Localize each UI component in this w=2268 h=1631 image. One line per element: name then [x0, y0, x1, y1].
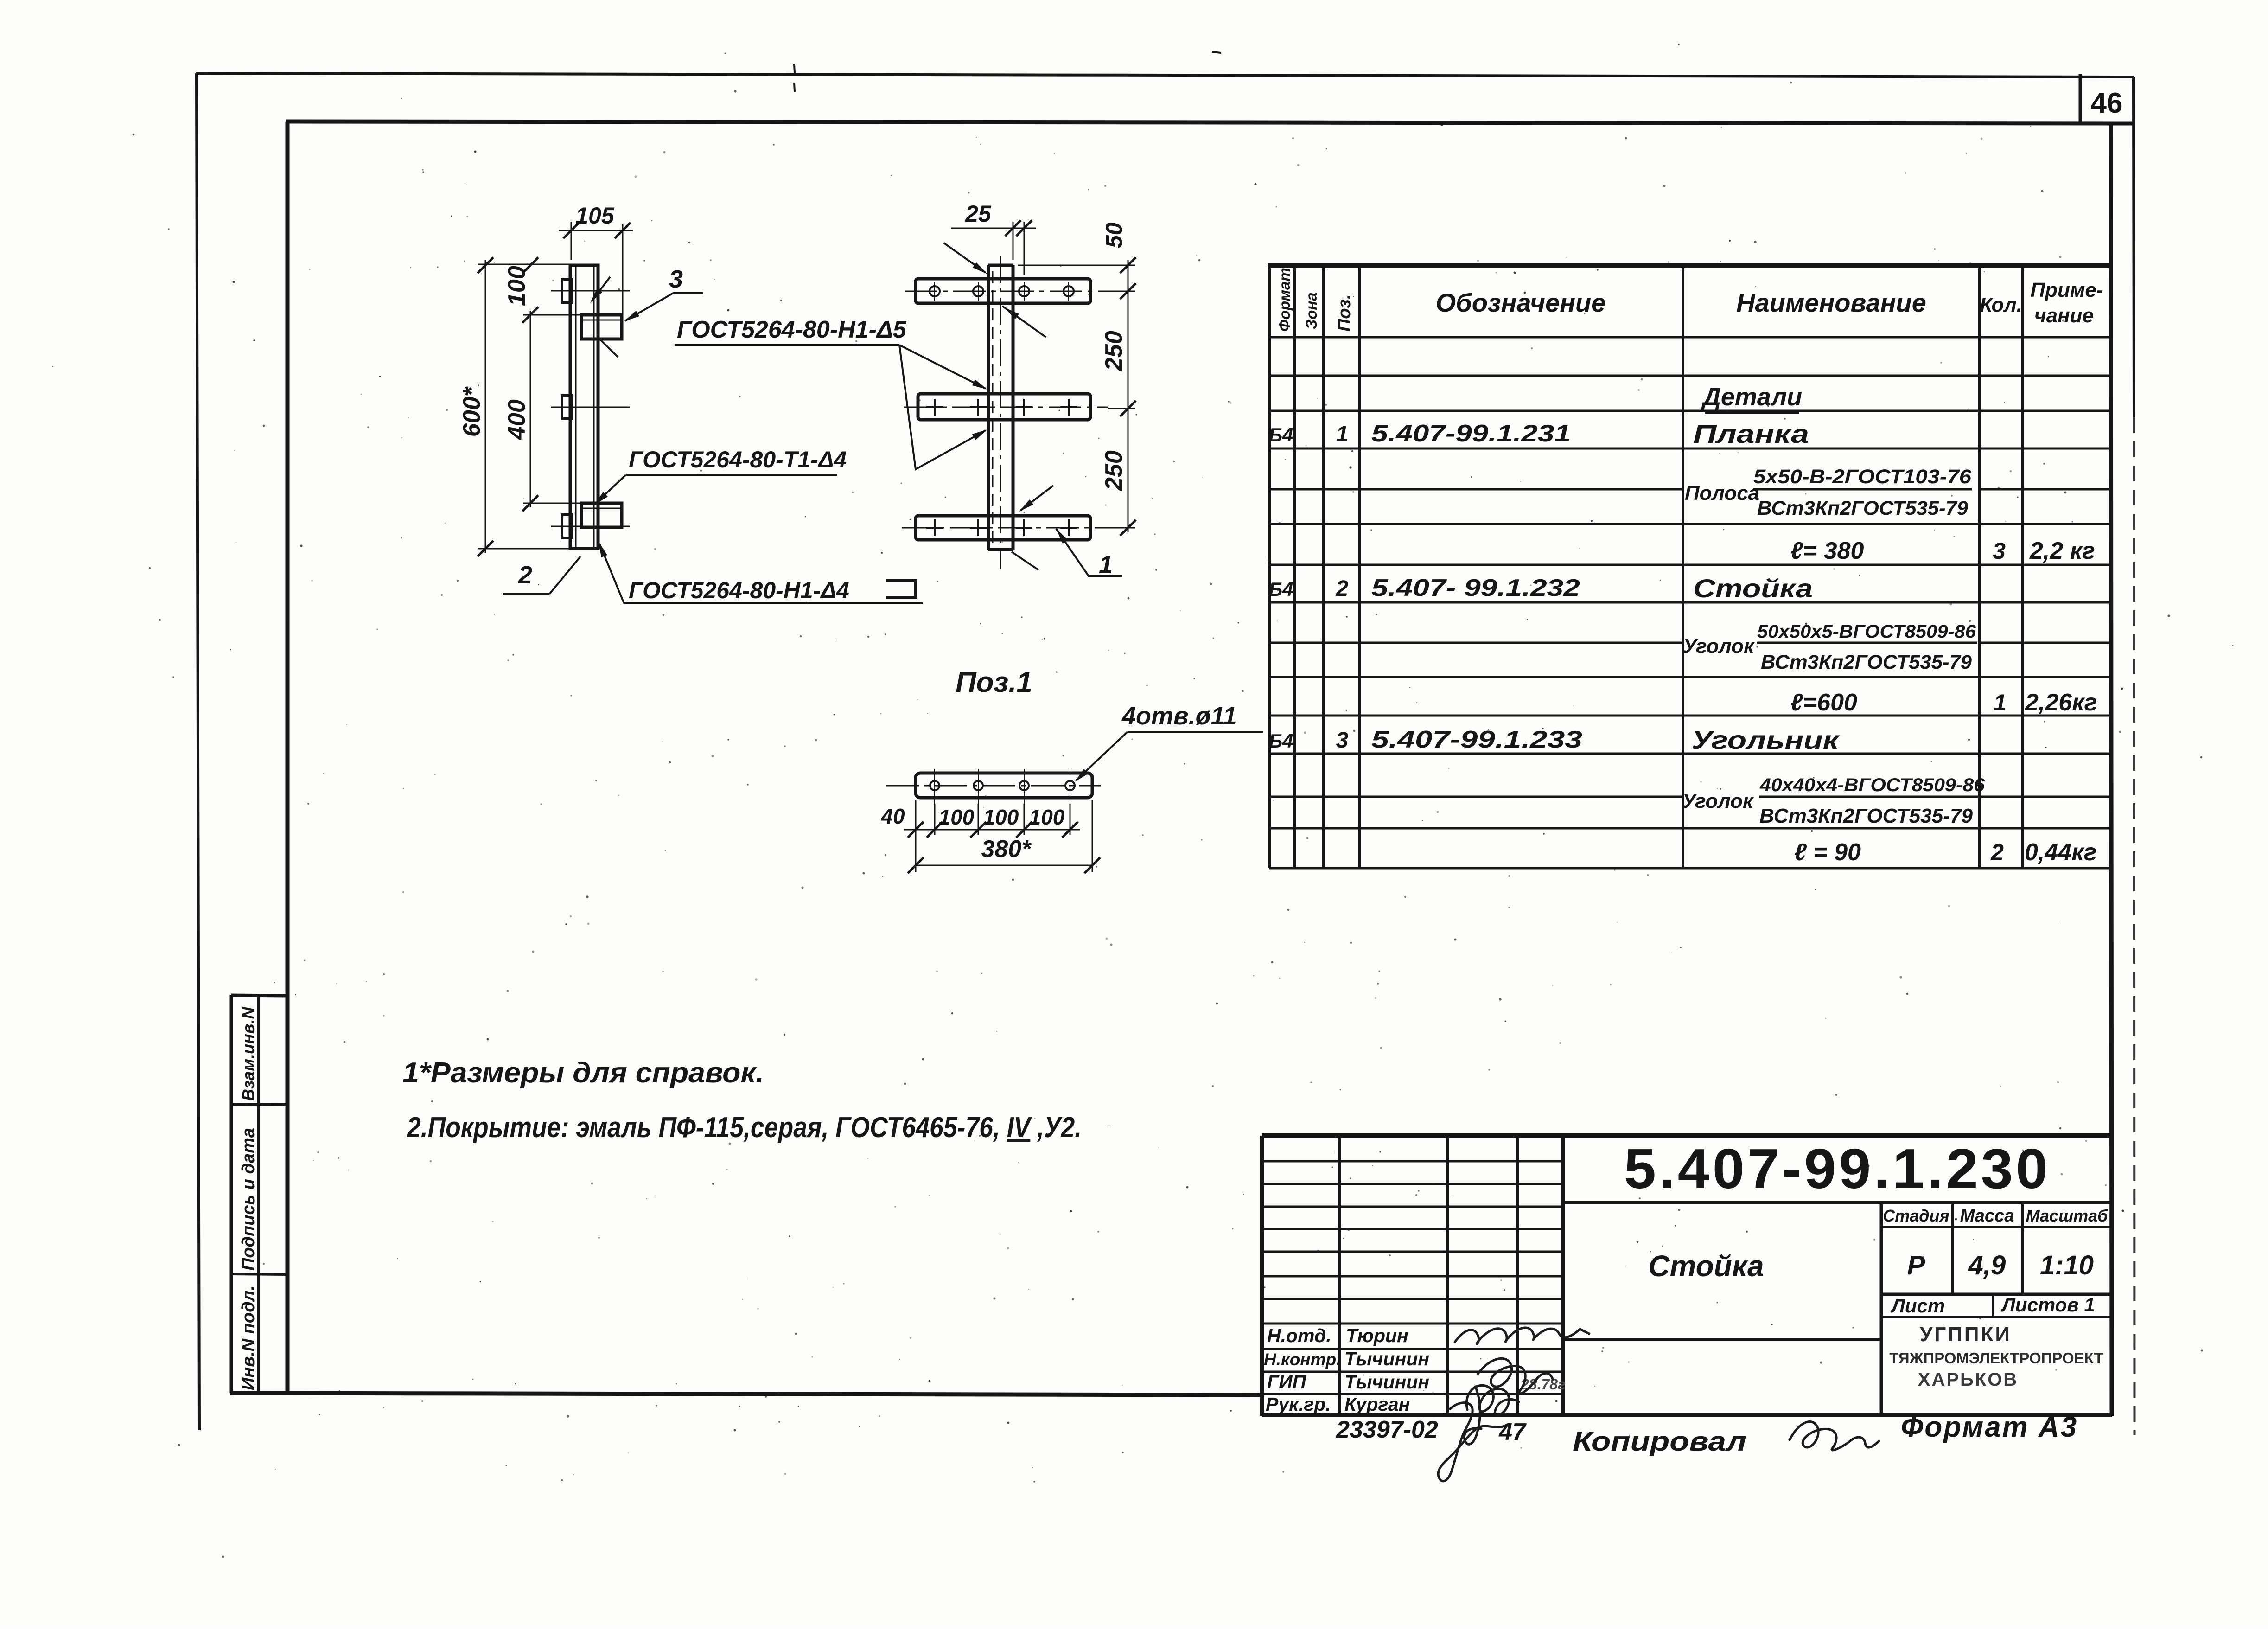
svg-text:5.407-99.1.231: 5.407-99.1.231	[1371, 420, 1571, 447]
title block signature rows	[1264, 1325, 1566, 1415]
svg-text:5х50-В-2ГОСТ103-76: 5х50-В-2ГОСТ103-76	[1753, 466, 1972, 488]
svg-text:46: 46	[2091, 87, 2123, 119]
svg-text:Детали: Детали	[1701, 383, 1802, 411]
side view weld arrows	[590, 277, 618, 357]
svg-text:2.Покрытие: эмаль ПФ-115,серая: 2.Покрытие: эмаль ПФ-115,серая, ГОСТ6465…	[407, 1112, 1082, 1144]
svg-text:100: 100	[503, 266, 530, 306]
svg-text:Поз.: Поз.	[1335, 294, 1354, 332]
svg-text:ХАРЬКОВ: ХАРЬКОВ	[1918, 1369, 2018, 1390]
title block grid	[1262, 1136, 2112, 1416]
svg-text:105: 105	[575, 203, 615, 229]
signatures (handwritten)	[1438, 1328, 1589, 1481]
front view: bottom strap (pos.1) with cross marks	[902, 516, 1108, 540]
svg-text:чание: чание	[2034, 304, 2094, 327]
svg-text:Формат А3: Формат А3	[1901, 1411, 2078, 1443]
side view: top angle bracket (pos.3)	[581, 315, 622, 339]
leader label 3	[624, 265, 703, 321]
svg-text:400: 400	[503, 399, 530, 440]
svg-text:ГИП: ГИП	[1267, 1371, 1307, 1393]
svg-text:Приме-: Приме-	[2030, 279, 2103, 301]
svg-text:40: 40	[880, 804, 905, 828]
svg-text:2,2 кг: 2,2 кг	[2029, 537, 2095, 564]
svg-text:3: 3	[669, 265, 683, 293]
svg-text:Б4: Б4	[1268, 424, 1293, 446]
svg-text:47: 47	[1498, 1419, 1527, 1446]
svg-text:Масса: Масса	[1960, 1206, 2014, 1226]
svg-text:Копировал: Копировал	[1573, 1426, 1746, 1457]
svg-text:Наименование: Наименование	[1736, 288, 1926, 317]
side view: bottom angle bracket (pos.3)	[581, 503, 622, 527]
front view weld arrows	[944, 243, 1053, 570]
leader label 2	[503, 556, 580, 594]
svg-text:Рук.гр.: Рук.гр.	[1266, 1394, 1331, 1415]
dimension 400	[503, 307, 581, 511]
svg-text:УГППКИ: УГППКИ	[1920, 1323, 2012, 1346]
svg-text:2: 2	[518, 561, 532, 589]
svg-text:100: 100	[983, 805, 1019, 829]
svg-text:50х50х5-ВГОСТ8509-86: 50х50х5-ВГОСТ8509-86	[1757, 621, 1976, 642]
svg-text:Планка: Планка	[1693, 419, 1809, 448]
side view: stand vertical angle (pos.2)	[570, 265, 598, 549]
svg-text:250: 250	[1101, 450, 1128, 491]
svg-text:Курган: Курган	[1344, 1394, 1410, 1415]
svg-text:Н.отд.: Н.отд.	[1267, 1325, 1331, 1346]
weld label GOST5264-80-N1-D4 with contour symbol	[599, 542, 923, 603]
notes	[402, 1057, 1082, 1144]
svg-text:Б4: Б4	[1268, 730, 1293, 752]
leader 4 holes dia 11	[1075, 702, 1263, 782]
svg-text:ВСт3Кп2ГОСТ535-79: ВСт3Кп2ГОСТ535-79	[1759, 805, 1973, 827]
svg-text:5.407-99.1.233: 5.407-99.1.233	[1371, 726, 1582, 753]
svg-text:600*: 600*	[459, 386, 485, 437]
svg-text:Б4: Б4	[1268, 578, 1293, 600]
svg-text:50: 50	[1101, 222, 1127, 248]
dimensions 40 / 100x3	[880, 800, 1092, 872]
svg-text:2,26кг: 2,26кг	[2025, 689, 2097, 716]
svg-text:100: 100	[1029, 805, 1065, 829]
svg-text:ℓ= 380: ℓ= 380	[1790, 537, 1864, 564]
inner drawing frame	[230, 122, 2134, 1416]
side view: strap cross-sections (pos.1 tabs)	[551, 279, 630, 538]
svg-text:Масштаб: Масштаб	[2026, 1206, 2109, 1225]
svg-text:Полоса: Полоса	[1685, 482, 1759, 505]
svg-text:Угольник: Угольник	[1691, 725, 1840, 755]
svg-text:Стадия: Стадия	[1883, 1206, 1949, 1225]
svg-text:ТЯЖПРОМЭЛЕКТРОПРОЕКТ: ТЯЖПРОМЭЛЕКТРОПРОЕКТ	[1889, 1350, 2103, 1367]
svg-text:Обозначение: Обозначение	[1436, 288, 1606, 317]
svg-text:2: 2	[1990, 839, 2004, 865]
svg-text:4отв.ø11: 4отв.ø11	[1121, 702, 1237, 730]
svg-text:380*: 380*	[981, 836, 1032, 863]
dimension 600*	[459, 257, 573, 556]
sheet page-number box	[2079, 74, 2082, 123]
svg-text:250: 250	[1101, 331, 1128, 371]
svg-text:Тычинин: Тычинин	[1344, 1371, 1429, 1393]
svg-text:40х40х4-ВГОСТ8509-86: 40х40х4-ВГОСТ8509-86	[1759, 775, 1985, 795]
svg-text:1:10: 1:10	[2040, 1250, 2094, 1280]
svg-text:ВСт3Кп2ГОСТ535-79: ВСт3Кп2ГОСТ535-79	[1761, 651, 1972, 673]
svg-text:3: 3	[1336, 728, 1349, 753]
svg-text:Зона: Зона	[1303, 292, 1320, 329]
specification table rows	[1268, 383, 2097, 866]
svg-text:Лист: Лист	[1890, 1295, 1945, 1317]
svg-text:Формат: Формат	[1276, 268, 1293, 332]
svg-text:Взам.инв.N: Взам.инв.N	[239, 1006, 258, 1101]
svg-text:ГОСТ5264-80-Н1-Δ5: ГОСТ5264-80-Н1-Δ5	[677, 316, 907, 343]
svg-text:Тычинин: Тычинин	[1344, 1348, 1429, 1369]
lower margin inscriptions	[1336, 1411, 2078, 1457]
svg-text:Стойка: Стойка	[1693, 574, 1813, 603]
svg-text:3: 3	[1993, 538, 2006, 564]
dimension 100	[503, 257, 538, 306]
svg-text:ℓ=600: ℓ=600	[1790, 689, 1857, 716]
weld label GOST5264-80-T1-D4	[594, 447, 847, 505]
svg-text:ГОСТ5264-80-Н1-Δ4: ГОСТ5264-80-Н1-Δ4	[629, 577, 849, 603]
dimension 380*	[908, 836, 1100, 873]
svg-text:5.407-99.1.230: 5.407-99.1.230	[1624, 1137, 2051, 1200]
svg-text:ℓ = 90: ℓ = 90	[1794, 839, 1861, 866]
svg-text:Инв.N подл.: Инв.N подл.	[239, 1286, 258, 1390]
svg-text:1: 1	[1994, 690, 2007, 716]
title block right cells text	[1648, 1206, 2109, 1390]
svg-text:0,44кг: 0,44кг	[2025, 839, 2096, 866]
svg-text:Листов 1: Листов 1	[2000, 1294, 2095, 1316]
front view: stand column (pos.2)	[988, 256, 1013, 569]
svg-text:ВСт3Кп2ГОСТ535-79: ВСт3Кп2ГОСТ535-79	[1757, 497, 1968, 519]
front view: top strap (pos.1) with holes	[905, 279, 1102, 303]
pos.1 strap detail	[886, 769, 1101, 804]
svg-text:4,9: 4,9	[1968, 1250, 2006, 1280]
svg-text:Подпись и дата: Подпись и дата	[239, 1128, 258, 1271]
svg-text:Р: Р	[1907, 1250, 1925, 1280]
copied-by signature	[1790, 1422, 1879, 1450]
svg-text:ГОСТ5264-80-Т1-Δ4: ГОСТ5264-80-Т1-Δ4	[629, 447, 847, 473]
specification table header	[1276, 268, 2103, 332]
svg-text:1*Размеры для справок.: 1*Размеры для справок.	[402, 1057, 764, 1089]
svg-text:Н.контр.: Н.контр.	[1264, 1350, 1341, 1369]
svg-text:25: 25	[965, 201, 992, 227]
svg-text:100: 100	[939, 805, 975, 829]
svg-text:Кол.: Кол.	[1980, 294, 2022, 316]
svg-text:5.407- 99.1.232: 5.407- 99.1.232	[1371, 575, 1580, 601]
svg-text:23397-02: 23397-02	[1336, 1416, 1438, 1443]
svg-text:1: 1	[1336, 422, 1349, 447]
left document strip (Vzam.inv.N / Podpis i data / Inv.N podl.)	[231, 995, 287, 1393]
specification table grid	[1268, 266, 2112, 868]
dimensions 50 / 250 / 250	[1018, 222, 1136, 536]
svg-text:Уголок: Уголок	[1682, 790, 1754, 812]
svg-text:1: 1	[1099, 551, 1113, 579]
dimension 105	[559, 203, 633, 334]
svg-text:Уголок: Уголок	[1683, 635, 1755, 658]
front view: middle strap (pos.1) with cross marks	[904, 394, 1108, 420]
svg-text:Тюрин: Тюрин	[1346, 1325, 1408, 1346]
dimension 25	[951, 201, 1036, 275]
outer sheet frame	[196, 73, 2134, 1435]
stray scan marks	[794, 64, 795, 73]
svg-text:2: 2	[1336, 576, 1349, 601]
svg-text:Поз.1: Поз.1	[956, 666, 1032, 698]
weld label GOST5264-80-N1-D5	[675, 316, 987, 469]
svg-text:Стойка: Стойка	[1648, 1249, 1764, 1283]
leader label 1	[1056, 529, 1122, 579]
